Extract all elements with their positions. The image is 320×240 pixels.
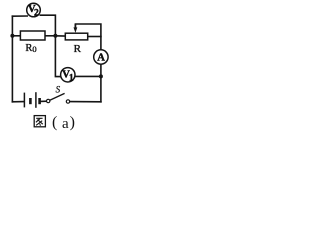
svg-text:a: a	[62, 116, 69, 132]
svg-text:A: A	[97, 52, 105, 63]
resistor R0	[20, 31, 45, 40]
node junction dot left R0	[10, 34, 14, 38]
battery cell 2 long plate	[35, 92, 37, 108]
wire left vertical	[11, 16, 13, 102]
wire V2 right to corner and down to V1	[40, 15, 61, 76]
ammeter A	[94, 50, 108, 64]
wire switch to bottom-right corner	[70, 101, 101, 103]
wire battery to switch	[40, 100, 46, 102]
node junction dot right R0	[53, 34, 57, 38]
voltmeter V1	[61, 68, 75, 84]
battery cell 2 short plate	[38, 98, 41, 104]
node junction dot V1-A	[99, 74, 103, 78]
caption tu (figure) glyph	[34, 116, 45, 127]
wire ammeter bottom to bottom-right corner	[100, 64, 102, 102]
wire mid junction to R	[55, 35, 65, 37]
svg-text:2: 2	[34, 9, 39, 19]
wire bottom from battery to left corner	[12, 101, 23, 103]
switch S	[47, 93, 70, 103]
rheostat slider arrow	[74, 24, 78, 33]
wire top-left to V2	[12, 15, 27, 17]
svg-text:S: S	[56, 85, 61, 95]
wire slider to top-right corner down to ammeter	[75, 24, 101, 50]
wire R right to right vertical	[88, 36, 101, 38]
wire V1 right to junction	[75, 75, 101, 77]
battery cell 1 long plate	[23, 93, 25, 108]
svg-text:R: R	[74, 43, 82, 55]
rheostat R	[65, 33, 87, 40]
svg-text:): )	[70, 114, 75, 131]
svg-text:(: (	[52, 114, 57, 131]
voltmeter V2	[27, 3, 41, 18]
wire R0 to mid junction	[45, 35, 55, 37]
svg-text:R0: R0	[25, 43, 36, 54]
wire R0 branch left	[12, 35, 20, 37]
svg-text:1: 1	[69, 74, 74, 84]
battery cell 1 short plate	[29, 98, 32, 104]
